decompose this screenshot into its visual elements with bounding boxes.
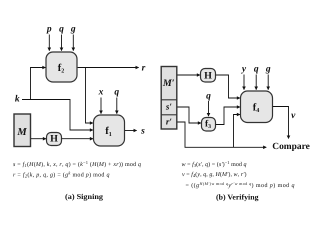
wire H(M) into f1 [62, 138, 93, 140]
received block stack M' s' r' [161, 67, 177, 130]
svg-text:r: r [142, 63, 146, 73]
function box f4 [241, 91, 273, 123]
svg-text:r = f2(k, p, q, g) = (gk mod p: r = f2(k, p, q, g) = (gk mod p) mod q [13, 171, 109, 179]
svg-text:q: q [114, 87, 119, 97]
svg-text:Compare: Compare [272, 142, 310, 152]
hash box H (verifying) [201, 69, 216, 83]
wire q into f1 [116, 98, 118, 114]
wire k branch up into f2 [31, 68, 46, 100]
block M [14, 114, 31, 147]
svg-text:(a) Signing: (a) Signing [65, 192, 103, 201]
wire q into f4 [255, 75, 257, 90]
function box f2 [46, 52, 77, 82]
svg-text:q: q [254, 65, 259, 75]
svg-text:(b) Verifying: (b) Verifying [216, 193, 259, 202]
svg-text:r′: r′ [166, 117, 173, 127]
wire r loop down into f1 [86, 68, 93, 124]
wire y into f4 [243, 75, 245, 90]
hash box H (signing) [47, 133, 62, 146]
wire v output of f4 down to compare [273, 107, 289, 139]
svg-text:v: v [291, 111, 296, 121]
svg-text:p: p [46, 25, 52, 35]
svg-text:y: y [241, 65, 247, 75]
svg-text:s′: s′ [165, 102, 173, 112]
svg-text:q: q [206, 92, 211, 102]
function box f1 [94, 115, 125, 146]
wire M to H [31, 138, 46, 140]
function box f3 [202, 118, 216, 132]
svg-text:g: g [265, 65, 271, 75]
wire q into f3 [208, 101, 210, 116]
wire g into f2 [72, 35, 74, 51]
wire s' into f3 [178, 107, 201, 123]
svg-text:w = f3(s′, q) = (s′)−1 mod q: w = f3(s′, q) = (s′)−1 mod q [182, 160, 247, 168]
wire M' to H [178, 74, 200, 76]
wire r output of f2 [78, 67, 139, 69]
wire p into f2 [48, 35, 50, 51]
wire s output of f1 [125, 130, 137, 132]
wire g into f4 [267, 75, 269, 90]
svg-text:H: H [204, 70, 212, 81]
wire x into f1 [100, 98, 102, 114]
svg-text:k: k [15, 95, 20, 105]
svg-text:q: q [59, 25, 64, 35]
wire r' branch up into f4 [234, 115, 240, 148]
wire w output of f3 into f4 [216, 107, 240, 125]
svg-text:v = f4(y, q, g, H(M′), w, r′): v = f4(y, q, g, H(M′), w, r′) [182, 171, 247, 178]
wire r' down and to compare [178, 122, 267, 147]
wire H(M') into f4 [216, 75, 240, 98]
svg-text:s: s [140, 126, 145, 136]
svg-text:g: g [70, 25, 76, 35]
wire k horizontal [22, 100, 93, 131]
svg-text:M′: M′ [162, 78, 175, 89]
svg-text:s = f1(H(M), k, x, r, q) = (k−: s = f1(H(M), k, x, r, q) = (k−1 (H(M) + … [13, 160, 141, 168]
svg-text:H: H [50, 134, 58, 145]
svg-text:= ((gH(M′)w mod qyr′w mod q) m: = ((gH(M′)w mod qyr′w mod q) mod p) mod … [186, 181, 295, 189]
svg-text:M: M [16, 127, 27, 138]
svg-text:x: x [98, 87, 104, 97]
wire q into f2 [61, 35, 63, 51]
